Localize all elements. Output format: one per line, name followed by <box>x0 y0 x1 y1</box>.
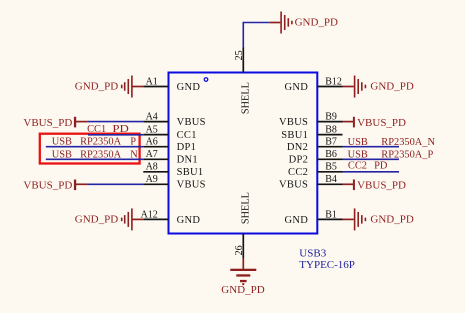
svg-text:VBUS_PD: VBUS_PD <box>357 117 406 129</box>
svg-text:DP2: DP2 <box>289 155 309 166</box>
svg-text:B4: B4 <box>325 174 337 185</box>
power flag VBUS_PD at B9 <box>343 117 407 129</box>
ground GND_PD at A1 (left-pointing) <box>75 76 144 98</box>
svg-text:GND_PD: GND_PD <box>221 284 264 296</box>
svg-text:VBUS_PD: VBUS_PD <box>23 117 72 129</box>
svg-text:USBRP2350A_N: USBRP2350A_N <box>348 137 436 148</box>
svg-text:GND: GND <box>177 215 201 226</box>
svg-text:A9: A9 <box>146 174 158 185</box>
ground GND_PD at B1 (right-pointing) <box>343 208 414 230</box>
pin A7 <box>143 149 168 160</box>
svg-text:GND_PD: GND_PD <box>75 81 118 93</box>
svg-text:GND_PD: GND_PD <box>75 213 118 225</box>
wire net CC1_PD to A5 <box>88 134 143 136</box>
pin A5 <box>143 125 168 136</box>
svg-text:CC2: CC2 <box>288 167 308 178</box>
svg-text:B9: B9 <box>325 112 337 123</box>
pin A6 <box>143 137 168 148</box>
svg-text:TYPEC-16P: TYPEC-16P <box>299 259 355 271</box>
svg-text:GND: GND <box>177 82 201 93</box>
pin B12 <box>317 76 342 87</box>
connector U1 USB3 body box <box>169 73 318 234</box>
svg-text:A1: A1 <box>146 76 158 87</box>
pin B9 <box>317 112 342 123</box>
svg-text:B12: B12 <box>325 76 342 87</box>
svg-text:B8: B8 <box>325 125 337 136</box>
pin A4 <box>143 112 168 123</box>
ground GND_PD top (right-pointing, net of pin 25) <box>269 12 338 34</box>
ground GND_PD at B12 (right-pointing) <box>343 76 414 98</box>
svg-text:VBUS: VBUS <box>177 180 206 191</box>
pin B5 <box>317 162 342 173</box>
svg-text:SHELL: SHELL <box>240 192 251 224</box>
wire net USB_RP2350A_N to A7 <box>46 158 144 160</box>
svg-text:VBUS_PD: VBUS_PD <box>23 180 72 192</box>
svg-text:GND_PD: GND_PD <box>370 213 413 225</box>
svg-text:DP1: DP1 <box>177 142 197 153</box>
power flag VBUS_PD at A9 <box>23 180 87 192</box>
svg-text:DN2: DN2 <box>287 142 308 153</box>
svg-text:CC1: CC1 <box>177 130 197 141</box>
svg-text:VBUS: VBUS <box>279 117 308 128</box>
svg-text:SBU1: SBU1 <box>177 167 204 178</box>
svg-text:25: 25 <box>234 50 245 60</box>
svg-text:A5: A5 <box>146 125 158 136</box>
pin B1 <box>317 209 342 220</box>
svg-text:A6: A6 <box>146 137 158 148</box>
wire net VBUS_PD to A9 <box>87 183 143 185</box>
pin A8 <box>143 162 168 173</box>
svg-text:VBUS: VBUS <box>279 180 308 191</box>
svg-text:A7: A7 <box>146 149 158 160</box>
pin A1 <box>143 76 168 87</box>
svg-text:SBU1: SBU1 <box>281 130 308 141</box>
svg-text:USB3: USB3 <box>299 248 326 260</box>
svg-text:VBUS_PD: VBUS_PD <box>357 180 406 192</box>
svg-text:GND: GND <box>285 215 309 226</box>
pin A9 <box>143 174 168 185</box>
selection highlight rectangle <box>40 134 140 164</box>
svg-text:SHELL: SHELL <box>240 82 251 114</box>
marker dot inside box <box>204 78 208 82</box>
svg-text:DN1: DN1 <box>177 155 198 166</box>
svg-text:B6: B6 <box>325 149 337 160</box>
ground GND_PD at A12 (left-pointing) <box>75 208 144 230</box>
pin A12 <box>141 209 169 220</box>
ground GND_PD bottom (down-pointing, net of pin 26) <box>221 259 264 296</box>
wire net VBUS_PD to A4 <box>87 121 143 123</box>
pin 26 SHELL bottom <box>234 234 245 259</box>
pin B8 <box>317 125 342 136</box>
wire net CC2_PD to B5 <box>343 171 400 173</box>
pin B6 <box>317 149 342 160</box>
svg-text:GND_PD: GND_PD <box>370 81 413 93</box>
svg-text:A8: A8 <box>146 162 158 173</box>
wire net USB_RP2350A_P to B6 <box>343 158 400 160</box>
pin 25 SHELL top <box>234 48 245 73</box>
svg-text:VBUS: VBUS <box>177 117 206 128</box>
svg-text:GND: GND <box>285 82 309 93</box>
wire net USB_RP2350A_P to A6 <box>46 146 144 148</box>
svg-text:B1: B1 <box>325 209 337 220</box>
svg-text:B7: B7 <box>325 137 337 148</box>
wire pin 25 to top GND_PD <box>243 23 269 48</box>
pin B7 <box>317 137 342 148</box>
svg-text:B5: B5 <box>325 162 337 173</box>
power flag VBUS_PD at A4 <box>23 117 87 129</box>
power flag VBUS_PD at B4 <box>343 180 407 192</box>
svg-text:A4: A4 <box>146 112 158 123</box>
svg-text:USBRP2350A_P: USBRP2350A_P <box>348 149 434 160</box>
pin B4 <box>317 174 342 185</box>
wire net USB_RP2350A_N to B7 <box>343 146 400 148</box>
svg-text:GND_PD: GND_PD <box>295 17 338 29</box>
svg-text:26: 26 <box>234 245 245 255</box>
